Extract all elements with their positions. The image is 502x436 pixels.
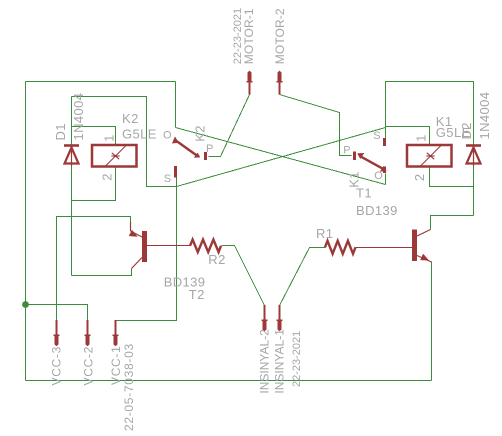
svg-text:2: 2 bbox=[100, 173, 115, 181]
wire: MOTOR-2 to K1 P contact bbox=[280, 95, 352, 156]
wire: K2 coil pin 1 bbox=[72, 127, 116, 146]
svg-text:K2: K2 bbox=[193, 125, 208, 142]
wire: D2 bottom to T1 collector bbox=[431, 216, 474, 230]
svg-text:22-23-2021: 22-23-2021 bbox=[291, 331, 303, 387]
pin INSINYAL-2 bbox=[262, 305, 268, 331]
transistor T2 (BD139) bbox=[129, 222, 190, 269]
svg-text:1N4004: 1N4004 bbox=[477, 92, 492, 140]
wire: MOTOR-1 to K2 P contact bbox=[209, 95, 250, 157]
svg-text:S: S bbox=[373, 130, 380, 142]
wire: K1 coil pin 1 bbox=[386, 127, 430, 146]
relay K1 switch contacts and lever bbox=[355, 138, 387, 173]
svg-text:P: P bbox=[343, 144, 350, 156]
svg-text:P: P bbox=[206, 143, 213, 155]
svg-text:G5LE: G5LE bbox=[122, 127, 157, 142]
wire: T1 emitter to bottom rail bbox=[431, 262, 433, 381]
svg-text:S: S bbox=[164, 173, 171, 185]
svg-text:1N4004: 1N4004 bbox=[71, 93, 86, 141]
wire: R1 to INSINYAL-1 pin bbox=[280, 248, 326, 306]
svg-text:O: O bbox=[163, 130, 172, 142]
diode D1 bbox=[64, 146, 79, 167]
resistor R2 bbox=[190, 240, 221, 253]
svg-text:O: O bbox=[374, 170, 383, 182]
wire: branch to VCC-2 pin bbox=[26, 305, 88, 321]
wire: K2 coil pin 2 to D1 bottom bbox=[72, 168, 116, 201]
relay K2 switch contacts and lever bbox=[172, 137, 205, 178]
svg-text:22-05-7038-03: 22-05-7038-03 bbox=[122, 343, 136, 431]
svg-text:22-23-2021: 22-23-2021 bbox=[232, 8, 244, 64]
relay K1 coil bbox=[407, 145, 452, 167]
wire: K1 coil pin 2 to D2 bottom bbox=[430, 168, 474, 187]
svg-text:2: 2 bbox=[412, 173, 427, 181]
pin VCC-1 bbox=[113, 320, 119, 346]
svg-text:INSINYAL-1: INSINYAL-1 bbox=[273, 329, 287, 394]
svg-text:1: 1 bbox=[102, 134, 117, 142]
resistor R1 bbox=[325, 241, 356, 254]
svg-text:VCC-2: VCC-2 bbox=[82, 346, 96, 386]
wire: diagonal K2-O to K1-O bbox=[176, 128, 386, 185]
pin INSINYAL-1 bbox=[277, 305, 283, 331]
wire: top rail right + K1 S drop + D2 top bbox=[386, 82, 474, 146]
svg-text:MOTOR-2: MOTOR-2 bbox=[273, 8, 287, 64]
wire: D1 vertical through diode bbox=[71, 97, 73, 276]
svg-text:R2: R2 bbox=[208, 252, 225, 267]
wire: left outer vertical (GND net) bbox=[25, 82, 27, 381]
svg-text:K2: K2 bbox=[122, 111, 139, 126]
pin MOTOR-2 bbox=[277, 71, 283, 95]
wire: R2 to INSINYAL-2 pin bbox=[222, 246, 265, 306]
wire: diagonal K2-S to K1-S (net VCC) bbox=[177, 128, 386, 187]
svg-text:R1: R1 bbox=[316, 226, 333, 241]
wire: bottom rail (GND net) bbox=[26, 380, 432, 382]
pin MOTOR-1 bbox=[247, 71, 253, 95]
wire: K1 O-contact stub bbox=[385, 174, 387, 185]
diode D2 bbox=[466, 146, 481, 167]
wire: K2 S-contact stub bbox=[176, 178, 178, 187]
svg-text:T1: T1 bbox=[356, 186, 372, 201]
svg-text:1: 1 bbox=[414, 134, 429, 142]
svg-text:G5LE: G5LE bbox=[436, 125, 471, 140]
wire: top rail left (GND net) bbox=[26, 81, 176, 83]
svg-text:BD139: BD139 bbox=[356, 203, 398, 218]
wire: D1 top to corner bbox=[72, 97, 177, 187]
svg-text:MOTOR-1: MOTOR-1 bbox=[242, 8, 256, 64]
svg-text:INSINYAL-2: INSINYAL-2 bbox=[257, 329, 271, 394]
svg-text:D1: D1 bbox=[53, 123, 68, 140]
wire: D2 vertical through diode bbox=[473, 146, 475, 216]
transistor T1 (BD139) bbox=[356, 230, 432, 263]
wire: K2 O-contact drop from top rail bbox=[175, 82, 177, 128]
wire: VCC-1 riser to K2-S node bbox=[116, 187, 177, 321]
junction: GND dot bbox=[22, 301, 29, 308]
wire: D1 bottom to T2 collector bbox=[72, 269, 132, 276]
pin VCC-3 bbox=[54, 320, 60, 346]
svg-text:BD139: BD139 bbox=[164, 275, 206, 290]
relay K2 coil bbox=[92, 145, 137, 167]
wire: T2 emitter to VCC-3 bbox=[57, 217, 131, 321]
pin VCC-2 bbox=[85, 320, 91, 346]
svg-text:VCC-3: VCC-3 bbox=[49, 346, 63, 386]
svg-text:VCC-1: VCC-1 bbox=[109, 345, 123, 385]
